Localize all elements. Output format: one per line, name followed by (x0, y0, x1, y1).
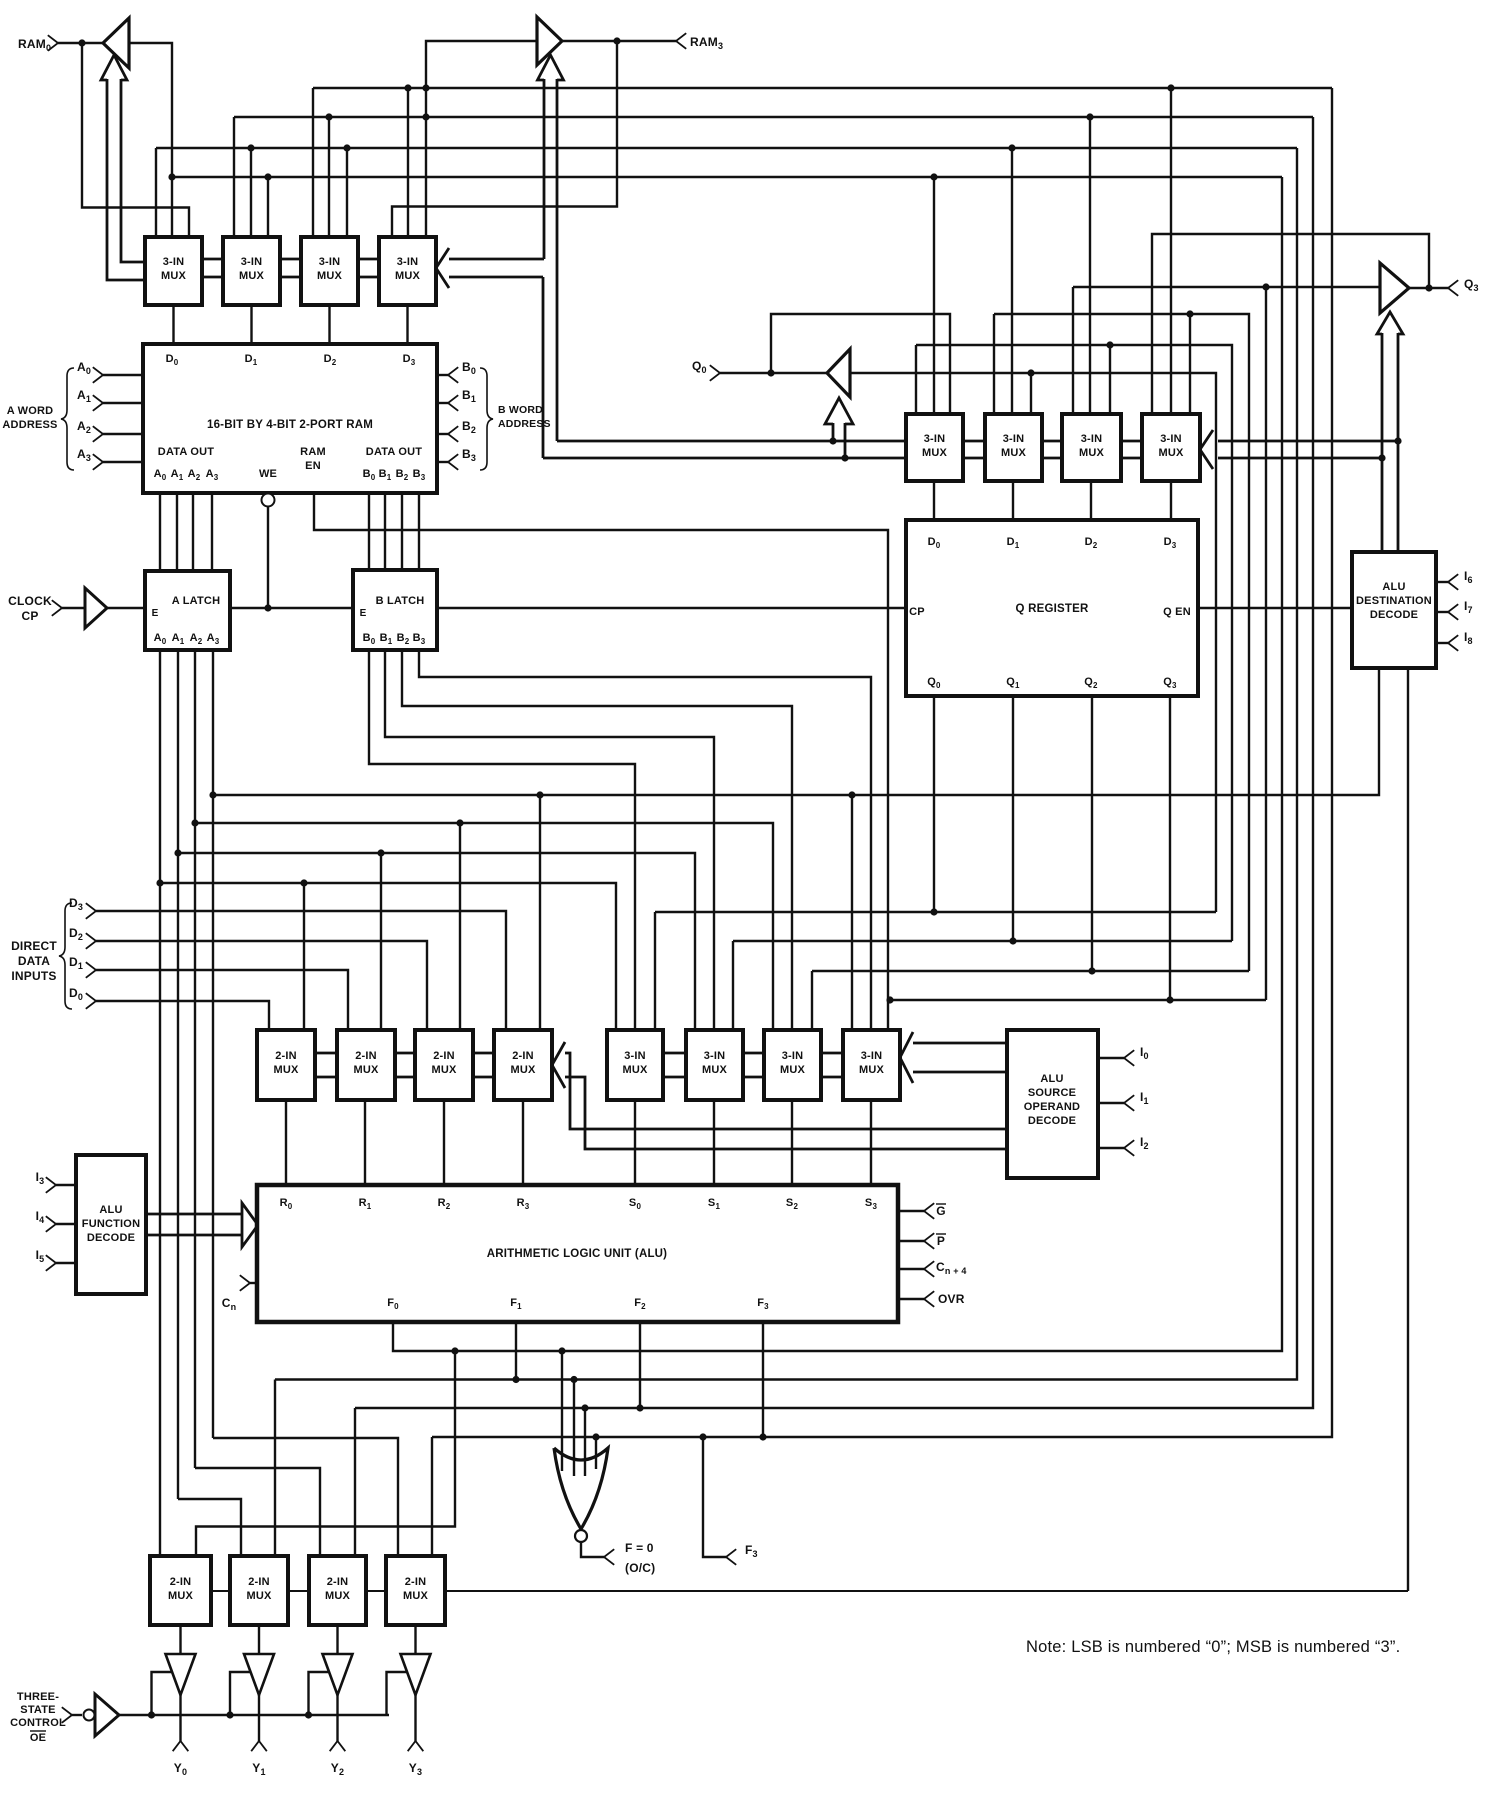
svg-text:P: P (937, 1234, 945, 1248)
terminal Q0 (692, 359, 827, 381)
svg-text:ALU: ALU (99, 1204, 122, 1216)
ALU source mux 4 (3-IN MUX) (843, 1030, 900, 1100)
NOR gate F=0 (554, 1448, 608, 1542)
svg-text:3-IN: 3-IN (624, 1050, 646, 1062)
wire A3 tap to operand mux 4 (536, 791, 543, 1030)
wire source mux outputs to ALU S inputs (635, 1100, 871, 1185)
select arrowhead into Q mux 4 (1200, 430, 1213, 469)
wire A2 bus to source mux 3 (191, 819, 773, 1030)
output buffer Y3 (401, 1625, 431, 1741)
terminal Y1 (251, 1741, 267, 1777)
svg-text:DECODE: DECODE (1028, 1115, 1076, 1127)
wire D1 to operand mux 2 (96, 970, 348, 1030)
wire A1 output vertical (177, 650, 179, 1499)
svg-text:MUX: MUX (922, 447, 948, 459)
clock buffer (85, 588, 107, 628)
node RAM0 pin junction (78, 39, 85, 46)
select arrowhead into operand mux 4 (552, 1042, 565, 1088)
ALU source mux 3 (3-IN MUX) (764, 1030, 821, 1100)
wire Q1 register output bus (733, 696, 1232, 1030)
wire Q2 register feedback to Q mux 2 and Q mux 4 (994, 310, 1249, 971)
wire F3 bus taps to RAM muxes (313, 84, 430, 237)
terminal three-state control OE (10, 1691, 82, 1744)
svg-text:A WORD: A WORD (7, 405, 54, 417)
svg-text:F = 0: F = 0 (625, 1541, 654, 1555)
wire F2 tap to Q mux 3 (1086, 113, 1093, 414)
B word address label and brace (480, 368, 551, 470)
svg-text:CONTROL: CONTROL (10, 1717, 66, 1729)
tri-state buffer RAM0 output (103, 18, 129, 68)
terminal D1 direct data input (69, 955, 96, 978)
wire output mux select from destination decode (445, 1590, 1408, 1592)
svg-text:MUX: MUX (780, 1064, 806, 1076)
wire RAM EN to source mux 4 (314, 493, 888, 1030)
wire B1 bus to source mux 2 (385, 650, 714, 1030)
svg-text:3-IN: 3-IN (1081, 433, 1103, 445)
wire Q mux select from destination decode (1218, 441, 1398, 552)
svg-text:MUX: MUX (859, 1064, 885, 1076)
svg-text:DECODE: DECODE (87, 1232, 135, 1244)
note text (1026, 1638, 1400, 1656)
svg-text:SOURCE: SOURCE (1028, 1087, 1076, 1099)
wire F0 bus taps (168, 173, 271, 237)
svg-text:3-IN: 3-IN (861, 1050, 883, 1062)
svg-text:CP: CP (21, 609, 38, 623)
svg-text:3-IN: 3-IN (704, 1050, 726, 1062)
node Q0 pin junction (767, 369, 774, 376)
svg-text:DECODE: DECODE (1370, 609, 1418, 621)
ALU source operand decode block (1007, 1030, 1098, 1178)
svg-text:2-IN: 2-IN (248, 1576, 270, 1588)
terminal A2 address input (77, 419, 143, 442)
terminal A1 address input (77, 388, 143, 411)
OE inverting buffer (84, 1694, 120, 1736)
wire B3 bus to source mux 4 (419, 650, 871, 1030)
svg-text:B WORD: B WORD (498, 404, 543, 416)
svg-text:WE: WE (259, 468, 277, 480)
terminal B1 address input (437, 388, 476, 411)
wire F2 bus top (234, 116, 1313, 118)
svg-text:MUX: MUX (622, 1064, 648, 1076)
terminal CLOCK CP (8, 594, 85, 623)
output buffer Y1 (244, 1625, 274, 1741)
svg-text:MUX: MUX (246, 1590, 272, 1602)
svg-text:3-IN: 3-IN (1160, 433, 1182, 445)
svg-text:ARITHMETIC LOGIC UNIT (ALU): ARITHMETIC LOGIC UNIT (ALU) (487, 1248, 667, 1260)
output mux 1 (2-IN MUX) (150, 1556, 211, 1625)
wire F2 bus taps (234, 113, 430, 237)
svg-text:MUX: MUX (1158, 447, 1184, 459)
svg-text:ADDRESS: ADDRESS (2, 419, 57, 431)
enable arrow into Q0 buffer (825, 398, 853, 462)
output mux 4 (2-IN MUX) (386, 1556, 445, 1625)
wire Q mux select chain to RAM3 and Q0 buffers (543, 277, 906, 458)
wire A0 bus to source mux 1 (156, 879, 616, 1030)
svg-text:MUX: MUX (168, 1590, 194, 1602)
svg-text:2-IN: 2-IN (327, 1576, 349, 1588)
svg-text:2-IN: 2-IN (433, 1050, 455, 1062)
function decode arrow to ALU (146, 1203, 258, 1247)
wire F3 to terminal (699, 1433, 726, 1557)
svg-text:3-IN: 3-IN (1003, 433, 1025, 445)
wire A0 tap to operand mux 1 (300, 879, 307, 1030)
wire A3 output vertical (212, 650, 214, 1438)
wire A3 tap to source mux 4 (848, 791, 855, 1030)
wire Q3 buffer output to terminal (1409, 287, 1448, 289)
svg-text:2-IN: 2-IN (170, 1576, 192, 1588)
A latch (145, 571, 230, 650)
node RAM3 enable taps (0, 0, 1, 1)
svg-text:(O/C): (O/C) (625, 1561, 655, 1575)
svg-text:OPERAND: OPERAND (1024, 1101, 1080, 1113)
wire NOR gate inputs from F bus (558, 1347, 599, 1476)
node Q3 pin junction (1425, 284, 1432, 291)
svg-text:G: G (936, 1204, 946, 1218)
terminal I6 (1436, 569, 1473, 590)
wire clock line B latch to Q register CP (437, 607, 906, 609)
wire F3 to output mux 4 (431, 1437, 433, 1556)
svg-text:MUX: MUX (161, 270, 187, 282)
ALU operand mux 1 (2-IN MUX) (257, 1030, 315, 1100)
terminal I2 (1098, 1135, 1149, 1156)
svg-text:DIRECT: DIRECT (11, 939, 57, 953)
terminal A3 address input (77, 447, 143, 470)
wire F1 bus taps (156, 144, 351, 237)
wire A1 bus to source mux 2 (174, 849, 695, 1030)
wire Q2 register output bus (812, 696, 1249, 1030)
terminal B3 address input (437, 447, 476, 470)
wire F1 tap to Q mux 2 (1008, 144, 1015, 414)
wire RAM data out A to A latch (160, 493, 212, 571)
svg-text:Note: LSB is numbered “0”; MSB: Note: LSB is numbered “0”; MSB is number… (1026, 1638, 1400, 1656)
svg-text:DATA OUT: DATA OUT (158, 446, 214, 458)
wire A0 output vertical (159, 650, 161, 1556)
wire RAM0 pin to RAM shift mux 1 (82, 43, 189, 237)
Q register shift mux 4 (3-IN MUX) (1142, 414, 1200, 481)
svg-text:3-IN: 3-IN (163, 256, 185, 268)
RAM shift mux 1 (3-IN MUX) (145, 237, 202, 305)
svg-text:RAM: RAM (300, 446, 326, 458)
svg-text:2-IN: 2-IN (355, 1050, 377, 1062)
svg-text:16-BIT BY 4-BIT 2-PORT RAM: 16-BIT BY 4-BIT 2-PORT RAM (207, 419, 373, 431)
wire Q0 tap to Q mux 2 (1027, 369, 1034, 414)
wire clock line A latch to B latch (230, 607, 353, 609)
terminal I0 (1098, 1045, 1149, 1066)
svg-text:Q EN: Q EN (1163, 606, 1191, 618)
svg-text:MUX: MUX (325, 1590, 351, 1602)
RAM shift mux 4 (3-IN MUX) (379, 237, 436, 305)
ALU source mux 1 (3-IN MUX) (607, 1030, 663, 1100)
svg-text:E: E (152, 608, 159, 619)
svg-text:2-IN: 2-IN (275, 1050, 297, 1062)
svg-text:MUX: MUX (239, 270, 265, 282)
wire RAM3 pin down to RAM mux 4 (392, 41, 617, 237)
svg-text:MUX: MUX (353, 1064, 379, 1076)
wire F3 bus top (313, 87, 1332, 89)
wire D3 to operand mux 4 (96, 911, 506, 1030)
terminal RAM0 (18, 35, 103, 53)
svg-text:E: E (360, 608, 367, 619)
svg-text:MUX: MUX (431, 1064, 457, 1076)
tri-state buffer Q3 (1380, 263, 1409, 313)
wire F2 output bus (355, 117, 1313, 1412)
terminal B2 address input (437, 419, 476, 442)
wire A2 jog to output mux 3 (195, 1468, 320, 1556)
RAM 16x4 2-port block (143, 344, 437, 493)
tri-state buffer RAM3 output (537, 17, 562, 65)
svg-text:MUX: MUX (1001, 447, 1027, 459)
ALU source mux 2 (3-IN MUX) (686, 1030, 743, 1100)
select arrowhead into RAM mux 4 (436, 248, 449, 288)
svg-text:3-IN: 3-IN (924, 433, 946, 445)
RAM shift mux 3 (3-IN MUX) (301, 237, 358, 305)
terminal Y2 (330, 1741, 346, 1777)
terminal Y3 (408, 1741, 424, 1777)
terminal I5 (36, 1248, 76, 1271)
wire D2 to operand mux 3 (96, 941, 427, 1030)
svg-text:MUX: MUX (273, 1064, 299, 1076)
wire Q mux select chain (963, 441, 1142, 458)
terminal I4 (36, 1209, 76, 1232)
enable arrow into RAM3 buffer (538, 55, 564, 441)
wire F3 into RAM3 buffer input (426, 41, 537, 237)
wire F0 bus top (172, 176, 1282, 178)
wire B2 bus to source mux 3 (402, 650, 792, 1030)
terminal A0 address input (77, 360, 143, 383)
wire clock to A latch E (107, 607, 145, 609)
svg-text:3-IN: 3-IN (319, 256, 341, 268)
svg-text:MUX: MUX (510, 1064, 536, 1076)
wire F1 bus top (156, 147, 1297, 149)
terminal F=0 (O/C) (604, 1541, 655, 1575)
wire F0 output bus (393, 177, 1282, 1351)
terminal I8 (1436, 630, 1473, 651)
terminal I7 (1436, 599, 1473, 620)
wire NOR output to F=0 terminal (581, 1541, 604, 1557)
wire Q3 pin to Q mux 4 (1152, 234, 1429, 414)
svg-text:CP: CP (909, 606, 925, 618)
svg-text:OVR: OVR (938, 1292, 965, 1306)
terminal OVR output (898, 1291, 965, 1307)
svg-text:INPUTS: INPUTS (11, 969, 56, 983)
wire A3 jog to output mux 4 (213, 1438, 398, 1556)
B latch (353, 570, 437, 650)
A word address label and brace (2, 368, 74, 470)
wire B0 bus to source mux 1 (369, 650, 635, 1030)
terminal G output (898, 1203, 946, 1219)
wire Q0 register output bus (655, 696, 1216, 1030)
terminal F3 (726, 1543, 758, 1565)
svg-text:3-IN: 3-IN (241, 256, 263, 268)
wire A3 bus (209, 668, 1379, 799)
output buffer Y0 (166, 1625, 196, 1741)
ALU operand mux 4 (2-IN MUX) (494, 1030, 552, 1100)
wire RAM mux outputs to RAM D inputs (174, 305, 408, 344)
svg-text:MUX: MUX (317, 270, 343, 282)
wire destination decode to output mux select (1407, 668, 1409, 1591)
svg-text:Q REGISTER: Q REGISTER (1016, 603, 1089, 615)
wire F1 output bus (275, 148, 1297, 1383)
ALU operand mux 3 (2-IN MUX) (415, 1030, 473, 1100)
svg-text:THREE-: THREE- (17, 1691, 59, 1703)
wire output mux select chain (211, 1590, 386, 1592)
output mux 2 (2-IN MUX) (230, 1556, 288, 1625)
svg-text:CLOCK: CLOCK (8, 594, 52, 608)
wire Q0 register value to buffer input (850, 373, 1216, 912)
wire Q3 register output bus (886, 696, 1266, 1004)
Q register shift mux 2 (3-IN MUX) (985, 414, 1042, 481)
svg-text:FUNCTION: FUNCTION (82, 1218, 140, 1230)
wire operand mux outputs to ALU R inputs (286, 1100, 523, 1185)
RAM shift mux 2 (3-IN MUX) (223, 237, 280, 305)
wire A1 tap to operand mux 2 (377, 849, 384, 1030)
svg-text:MUX: MUX (403, 1590, 429, 1602)
terminal D3 direct data input (69, 896, 96, 919)
wire F2 to output mux 3 (354, 1408, 356, 1556)
wire Q1 register feedback to Q mux 1 and Q mux 3 (916, 341, 1232, 941)
wire source mux select from source decode (913, 1043, 1007, 1072)
wire D0 to operand mux 1 (96, 1001, 269, 1030)
svg-text:B LATCH: B LATCH (376, 595, 425, 607)
wire RAM mux row select chain (202, 259, 379, 277)
Q register shift mux 3 (3-IN MUX) (1062, 414, 1121, 481)
wire RAM0 buffer output to F0 net (129, 43, 172, 237)
svg-text:3-IN: 3-IN (397, 256, 419, 268)
wire A2 output vertical (194, 650, 196, 1468)
wire operand mux select from source decode (565, 1053, 1007, 1149)
terminal Cn+4 output (898, 1260, 967, 1277)
wire F3 tap to Q mux 4 (1167, 84, 1174, 414)
wire operand mux select chain (315, 1053, 494, 1077)
terminal B0 address input (437, 360, 476, 383)
svg-text:ALU: ALU (1040, 1073, 1063, 1085)
tri-state buffer Q0 (827, 349, 850, 397)
wire RAM3 buffer to RAM3 terminal (562, 40, 676, 42)
svg-text:DATA: DATA (18, 954, 50, 968)
terminal D2 direct data input (69, 926, 96, 949)
ALU destination decode block (1352, 552, 1436, 668)
svg-text:DESTINATION: DESTINATION (1356, 595, 1432, 607)
terminal RAM3 (676, 33, 723, 51)
wire A2 tap to operand mux 3 (456, 819, 463, 1030)
terminal Y0 (173, 1741, 189, 1777)
wire source mux select chain (663, 1053, 843, 1077)
wire RAM mux select stubs to shift enable chain (449, 259, 544, 277)
wire F1 to output mux 2 (274, 1380, 276, 1557)
svg-text:2-IN: 2-IN (512, 1050, 534, 1062)
wire Q0 pin to Q mux 1 (771, 314, 950, 414)
Q register shift mux 1 (3-IN MUX) (906, 414, 963, 481)
wire RAM data out B to B latch (369, 493, 419, 570)
enable arrow into RAM0 buffer from mux select chain (101, 55, 145, 280)
terminal D0 direct data input (69, 986, 96, 1009)
wire F0 to output mux 1 (196, 1347, 459, 1556)
svg-text:OE: OE (30, 1732, 46, 1744)
wire F0 tap to Q mux 1 (930, 173, 937, 414)
svg-text:STATE: STATE (20, 1704, 55, 1716)
svg-text:MUX: MUX (395, 270, 421, 282)
svg-text:EN: EN (305, 460, 321, 472)
wire A1 jog to output mux 2 (178, 1499, 241, 1556)
output buffer Y2 (323, 1625, 353, 1741)
svg-text:DATA OUT: DATA OUT (366, 446, 422, 458)
direct data inputs label and brace (11, 903, 72, 1009)
svg-text:ALU: ALU (1382, 581, 1405, 593)
svg-text:2-IN: 2-IN (405, 1576, 427, 1588)
terminal I3 (36, 1170, 76, 1193)
terminal Q3 (1448, 277, 1479, 296)
wire Q EN to destination decode (1198, 607, 1352, 609)
svg-text:MUX: MUX (1079, 447, 1105, 459)
wire F3 output bus (432, 88, 1332, 1441)
terminal I1 (1098, 1090, 1149, 1111)
terminal Cn input (222, 1275, 257, 1312)
ALU operand mux 2 (2-IN MUX) (337, 1030, 395, 1100)
select arrowhead into source mux 4 (900, 1032, 913, 1083)
node RAM3 pin junction (613, 37, 620, 44)
wire Q3 register feedback to Q mux 3 (1073, 283, 1380, 1000)
svg-text:MUX: MUX (702, 1064, 728, 1076)
Q register block (906, 520, 1198, 696)
terminal P output (898, 1233, 946, 1249)
wire Q mux outputs to Q register (934, 481, 1171, 520)
ALU block (257, 1185, 898, 1322)
svg-text:3-IN: 3-IN (782, 1050, 804, 1062)
wire OE to output buffers (119, 1672, 407, 1719)
output mux 3 (2-IN MUX) (309, 1556, 366, 1625)
ALU function decode block (76, 1155, 146, 1294)
enable arrow into Q3 buffer (1377, 312, 1403, 462)
WE bubble and wire to clock line (262, 494, 275, 612)
svg-text:A LATCH: A LATCH (172, 595, 220, 607)
